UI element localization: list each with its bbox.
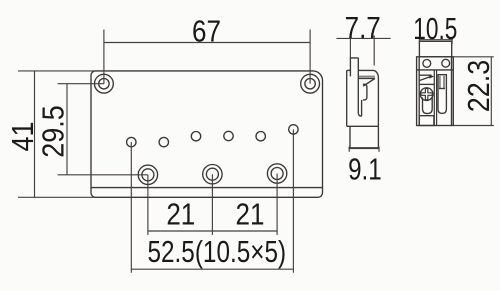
svg-text:7.7: 7.7 bbox=[345, 11, 381, 46]
front view: bottom-left box bbox=[419, 116, 434, 126]
dimension 9.1 tick right bbox=[378, 147, 380, 152]
dimension 21 extension line from hole 1 bbox=[147, 175, 149, 235]
side view: screw channel right wall bbox=[361, 100, 363, 116]
front view: left cell wedge dark nub bbox=[429, 75, 434, 79]
svg-text:52.5(10.5×5): 52.5(10.5×5) bbox=[147, 234, 286, 268]
side view: saddle body bottom line bbox=[347, 125, 379, 127]
dimension 9.1 tick left bbox=[348, 147, 350, 152]
front view: middle divider right line bbox=[436, 70, 438, 126]
dimension 67 extension line right bbox=[309, 30, 311, 84]
dimension 21 line bbox=[148, 230, 277, 232]
mounting screw left (inner) bbox=[99, 79, 109, 89]
svg-text:21: 21 bbox=[236, 197, 265, 232]
front view: line under circles bbox=[417, 69, 454, 71]
string hole 4 bbox=[224, 131, 233, 140]
front view: phillips cross bbox=[421, 89, 432, 100]
side view: saddle top edge with rounded right corner bbox=[358, 70, 378, 126]
dimension 22.3 extension bottom bbox=[453, 125, 494, 127]
svg-text:29.5: 29.5 bbox=[37, 105, 71, 157]
dimension 29.5 extension line top bbox=[58, 83, 104, 85]
dimension 67 extension line left bbox=[103, 30, 105, 84]
saddle screw hole 2 (outer) bbox=[203, 165, 222, 184]
front view: right cell slot stadium bbox=[438, 75, 446, 114]
front view: screw slot stadium bbox=[423, 98, 433, 114]
side view: string shelf gray band bbox=[358, 76, 375, 78]
dimension 41 extension line top bbox=[18, 70, 96, 72]
front view: left cell lower line bbox=[419, 83, 434, 85]
string hole 3 bbox=[191, 132, 200, 141]
plate front lip fold line bbox=[91, 187, 323, 189]
string hole 5 bbox=[256, 132, 265, 141]
dimension 22.3 extension top bbox=[453, 56, 494, 58]
svg-text:41: 41 bbox=[6, 122, 40, 152]
saddle screw hole 3 (outer) bbox=[267, 164, 286, 183]
front view: right cell inner slot right gray bar bbox=[443, 76, 445, 89]
mounting screw left (outer) bbox=[95, 74, 114, 93]
front view: left cell wedge diagonal bbox=[419, 77, 430, 81]
dimension 52.5 line bbox=[131, 268, 293, 270]
side view: saddle height screw tab bbox=[350, 58, 358, 77]
saddle screw hole 1 (outer) bbox=[138, 165, 157, 184]
front view: left circle bbox=[423, 60, 431, 68]
front view: right circle bbox=[442, 59, 450, 67]
mounting screw right (inner) bbox=[305, 79, 315, 89]
front view: inner left wall bbox=[418, 57, 420, 126]
bridge plate outline (top view) bbox=[91, 71, 323, 197]
front view: right cell inner slot left gray bar bbox=[439, 76, 441, 89]
dimension 7.7 line bbox=[336, 37, 390, 39]
svg-text:9.1: 9.1 bbox=[348, 151, 382, 186]
svg-text:22.3: 22.3 bbox=[462, 60, 496, 112]
dimension 7.7 extension left bbox=[349, 36, 351, 58]
side view: base plate rect bbox=[350, 126, 378, 148]
dimension 22.3 line bbox=[490, 57, 492, 126]
dimension 29.5 extension line bottom bbox=[58, 174, 148, 176]
svg-text:21: 21 bbox=[166, 197, 195, 232]
saddle screw hole 3 (inner) bbox=[271, 168, 283, 180]
dimension 7.7 extension right bbox=[373, 36, 375, 66]
mounting screw right (outer) bbox=[301, 74, 320, 93]
side view: string shelf line upper bbox=[358, 75, 374, 77]
side view: screw channel left wall (tab right edge continued) with foot bbox=[358, 58, 361, 116]
front view: main body outer rect bbox=[417, 57, 454, 126]
string hole 6 bbox=[289, 125, 298, 134]
dimension 21 extension line from hole 2 bbox=[211, 174, 213, 235]
dimension 52.5 extension line from string hole 6 bbox=[292, 129, 294, 272]
side view: intonation hook bbox=[363, 84, 367, 100]
string hole 1 bbox=[127, 137, 136, 146]
svg-text:10.5: 10.5 bbox=[413, 10, 457, 45]
dimension 10.5 line bbox=[419, 39, 453, 41]
dimension 41 line bbox=[34, 71, 36, 197]
front view: inner right wall bbox=[451, 57, 453, 126]
string hole 2 bbox=[159, 137, 168, 146]
front view: middle divider left line bbox=[433, 70, 435, 126]
saddle screw hole 2 (inner) bbox=[206, 168, 218, 180]
dimension 9.1 line bbox=[349, 148, 380, 150]
dimension 21 extension line from hole 3 bbox=[276, 174, 278, 235]
dimension 52.5 extension line from string hole 1 bbox=[130, 142, 132, 273]
dimension 10.5 tick right bbox=[451, 37, 453, 44]
front view: left cell wedge top line bbox=[419, 74, 431, 76]
side view: top ledge left of tab bbox=[347, 69, 351, 71]
side view: string ramp diagonal bbox=[363, 79, 375, 87]
side view: string shelf line lower bbox=[358, 78, 375, 80]
saddle screw hole 1 (inner) bbox=[142, 169, 154, 181]
dimension 67 line bbox=[104, 42, 310, 44]
side view: saddle body left edge bbox=[346, 70, 348, 126]
front view: top tab rect bbox=[419, 41, 451, 57]
dimension 41 extension line bottom bbox=[18, 196, 96, 198]
front view: phillips screw head bbox=[420, 88, 433, 101]
dimension 10.5 tick left bbox=[418, 37, 420, 44]
dimension 29.5 line bbox=[66, 84, 68, 175]
front view: right cell inner slot bottom bbox=[439, 88, 445, 90]
svg-text:67: 67 bbox=[192, 14, 221, 49]
